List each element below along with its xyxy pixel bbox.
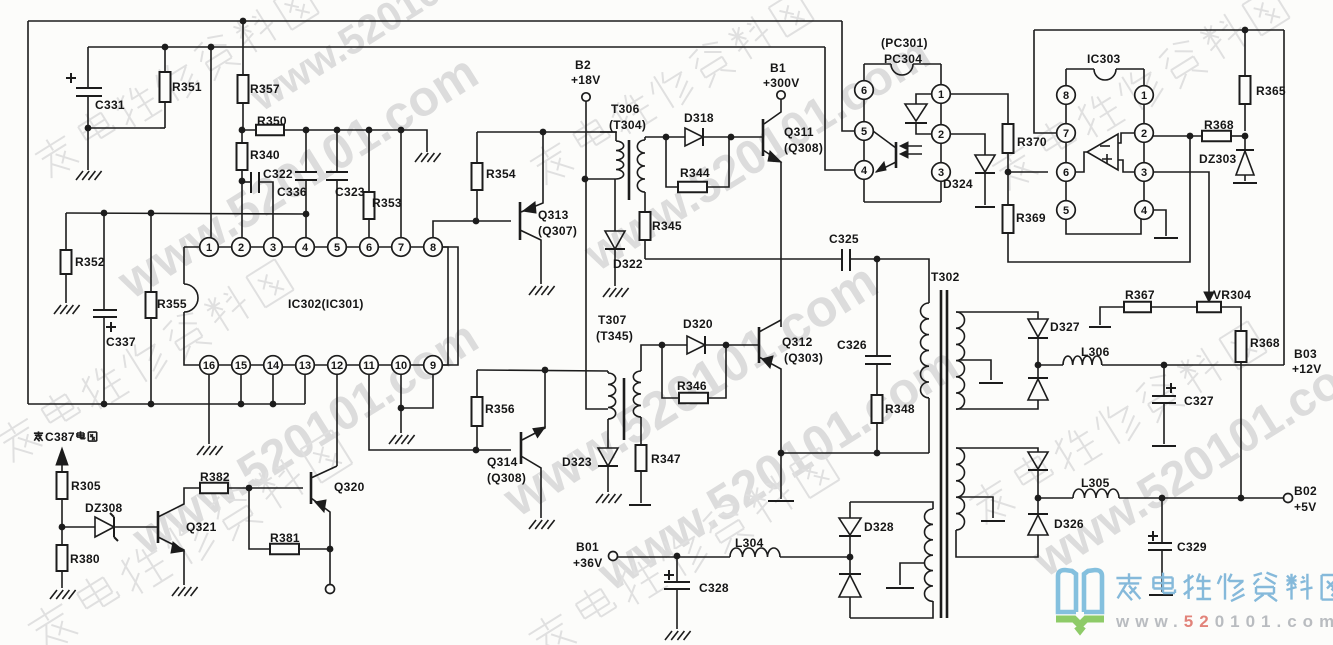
IC302 pin 2	[232, 238, 251, 257]
label to C387 negative plate	[34, 431, 43, 441]
svg-text:B01: B01	[576, 540, 599, 554]
node junction C327	[1161, 362, 1168, 369]
node junction R357 / R350 wire	[239, 127, 246, 134]
IC303 pin 5	[1057, 201, 1076, 220]
svg-text:5: 5	[1063, 205, 1069, 217]
wire pin14 column	[272, 374, 274, 404]
node junction pin4 column / left wire	[303, 211, 310, 218]
wire pin8 to pin9 column	[442, 247, 458, 365]
svg-text:C323: C323	[335, 185, 365, 199]
watermark	[243, 0, 547, 120]
terminal below Q320	[326, 585, 335, 594]
wire pin16 column to ground	[208, 374, 210, 444]
transistor Q311	[762, 119, 765, 156]
transformer T302 upper secondary winding	[956, 312, 965, 409]
svg-text:R370: R370	[1017, 135, 1047, 149]
node junction rail / R355	[148, 210, 155, 217]
resistor R370	[1003, 124, 1014, 153]
inductor L306	[1038, 364, 1063, 366]
svg-text:(Q308): (Q308)	[784, 141, 823, 155]
svg-text:D326: D326	[1054, 517, 1084, 531]
logo text jiadian weixiu ziliao wang	[1116, 573, 1141, 600]
diode D327 pair lower	[1028, 377, 1048, 379]
wire R351 bottom to C331 column	[88, 127, 160, 129]
wire Q312 emitter to ground bar	[780, 453, 782, 499]
svg-text:R345: R345	[652, 219, 682, 233]
node junction rail / pin6 column	[366, 127, 373, 134]
capacitor C326	[876, 259, 878, 356]
ground below Q313	[529, 286, 555, 295]
IC IC303 outline	[1065, 69, 1067, 86]
diode D326 upper	[1028, 452, 1048, 469]
svg-text:C328: C328	[699, 581, 729, 595]
svg-text:Q321: Q321	[186, 520, 217, 534]
svg-text:R350: R350	[257, 114, 287, 128]
node junction D326 / L305	[1035, 495, 1042, 502]
watermark	[1023, 333, 1333, 588]
svg-text:R348: R348	[885, 402, 915, 416]
capacitor C329	[1161, 498, 1163, 543]
resistor R365	[1244, 30, 1246, 76]
svg-text:(PC301): (PC301)	[881, 36, 928, 50]
svg-text:C325: C325	[829, 232, 859, 246]
svg-text:R368: R368	[1204, 118, 1234, 132]
svg-text:T307: T307	[598, 313, 627, 327]
wire B01 rail	[618, 556, 730, 558]
IC302 pin 12	[328, 356, 347, 375]
svg-text:C336: C336	[277, 185, 307, 199]
resistor R356	[476, 370, 478, 397]
node junction rail / pin14	[270, 401, 277, 408]
svg-text:R356: R356	[485, 402, 515, 416]
svg-text:C322: C322	[263, 167, 293, 181]
wire C322 to IC302 pin3	[259, 182, 273, 238]
node junction Q313 emitter rail	[540, 129, 547, 136]
node junction B2 / T306 bottom	[582, 176, 589, 183]
wire rail A drop to PC304 pin5	[842, 21, 855, 131]
svg-text:6: 6	[1063, 167, 1069, 179]
ground below R380	[50, 590, 76, 599]
node junction rail / R355 bottom	[148, 401, 155, 408]
wire emitter rail to T302	[781, 452, 929, 454]
ground bar below D324	[975, 206, 995, 208]
diode D322	[614, 179, 616, 231]
capacitor C323	[336, 130, 338, 172]
svg-text:R368: R368	[1250, 336, 1280, 350]
svg-text:Q312: Q312	[782, 335, 813, 349]
svg-text:B03: B03	[1294, 347, 1317, 361]
watermark	[0, 256, 295, 467]
svg-text:IC303: IC303	[1087, 52, 1121, 66]
transformer T302 lower secondary winding	[956, 448, 965, 530]
capacitor C322	[242, 181, 251, 183]
wire B2 column	[585, 101, 587, 371]
wire pin13 column	[304, 374, 306, 404]
svg-text:L304: L304	[735, 536, 764, 550]
svg-text:+5V: +5V	[1294, 500, 1317, 514]
svg-text:7: 7	[398, 242, 404, 254]
svg-text:(Q307): (Q307)	[538, 224, 577, 238]
capacitor C327	[1163, 365, 1165, 396]
transistor Q321	[157, 511, 160, 543]
watermark	[965, 318, 1268, 529]
svg-text:D323: D323	[562, 455, 592, 469]
zener diode DZ303	[1244, 136, 1246, 150]
logo book icon	[1058, 570, 1102, 612]
svg-text:L305: L305	[1081, 476, 1110, 490]
svg-text:R367: R367	[1125, 288, 1155, 302]
svg-text:2: 2	[238, 242, 244, 254]
wire to Q312 base	[726, 344, 759, 346]
optocoupler PC304 phototransistor	[895, 142, 898, 168]
svg-text:+36V: +36V	[573, 556, 603, 570]
svg-text:C329: C329	[1177, 540, 1207, 554]
resistor R354	[476, 132, 478, 163]
resistor R353	[368, 130, 370, 192]
node junction R365 / R368 / DZ303	[1242, 133, 1249, 140]
resistor R357	[242, 21, 244, 75]
resistor R344	[666, 137, 678, 187]
svg-text:8: 8	[430, 242, 436, 254]
wire B2 top rail	[477, 131, 617, 133]
svg-text:R357: R357	[250, 82, 280, 96]
svg-text:DZ308: DZ308	[85, 501, 123, 515]
capacitor C336	[305, 130, 307, 172]
svg-text:4: 4	[1141, 205, 1148, 217]
wire pin10 to ground	[400, 408, 402, 433]
svg-text:11: 11	[363, 360, 375, 372]
ground tap T302 lower secondary	[959, 497, 993, 518]
svg-text:R346: R346	[677, 379, 707, 393]
wire pin3 to op-amp non-inverting input	[1118, 160, 1135, 172]
IC302 pin 15	[232, 356, 251, 375]
svg-text:+18V: +18V	[571, 73, 601, 87]
arrow to C387	[61, 464, 63, 472]
node junction R356 / Q314 base	[473, 447, 480, 454]
wire pin9 link	[401, 374, 433, 408]
node junction L304 / D328	[847, 554, 854, 561]
zener diode DZ308	[62, 526, 95, 528]
wire IC303 pin2 rail	[1153, 135, 1202, 137]
resistor R382	[200, 483, 228, 494]
svg-text:(Q308): (Q308)	[487, 471, 526, 485]
transformer T306 left winding	[600, 131, 616, 133]
resistor R340	[241, 130, 243, 143]
svg-text:6: 6	[861, 85, 867, 97]
ground below IC302 pin16	[197, 446, 223, 455]
svg-text:R353: R353	[372, 196, 402, 210]
svg-text:D327: D327	[1050, 320, 1080, 334]
svg-text:D318: D318	[684, 111, 714, 125]
svg-text:3: 3	[1141, 167, 1147, 179]
wire pin10 column	[400, 374, 402, 408]
svg-text:R305: R305	[71, 479, 101, 493]
wire B02 rail	[1119, 497, 1283, 499]
wire C337 R355 rail to pin4	[66, 213, 306, 214]
resistor R368 vertical	[1236, 331, 1247, 362]
diode D328 upper	[849, 502, 851, 518]
resistor R367	[1124, 302, 1151, 313]
resistor R381	[249, 488, 270, 549]
svg-text:R369: R369	[1016, 211, 1046, 225]
optocoupler PC304 pin 6	[855, 81, 874, 100]
svg-text:C326: C326	[837, 338, 867, 352]
ground below D322	[603, 288, 629, 297]
svg-text:10: 10	[395, 360, 407, 372]
svg-text:Q320: Q320	[334, 480, 365, 494]
ground tap T302 upper secondary	[959, 360, 991, 380]
wire bottom ground rail	[28, 403, 305, 405]
svg-text:C337: C337	[106, 335, 136, 349]
svg-text:(T304): (T304)	[609, 118, 646, 132]
svg-text:R340: R340	[250, 148, 280, 162]
node junction rail A / R357	[240, 18, 247, 25]
ground below IC302 pin10	[389, 435, 415, 444]
resistor R355	[150, 213, 152, 292]
wire T306 left winding bottom link	[585, 178, 616, 180]
diode D327	[1028, 319, 1048, 337]
IC302 pin 6	[360, 238, 379, 257]
node junction R368 / B02 rail	[1238, 495, 1245, 502]
watermark	[493, 252, 888, 529]
wire B2 column to T307 bottom	[586, 371, 608, 409]
watermark	[107, 43, 487, 309]
node junction C331 / R351 bottom wire	[85, 125, 92, 132]
transistor Q312	[758, 327, 761, 363]
capacitor C328	[676, 556, 678, 582]
ground bar below DZ303	[1233, 182, 1257, 184]
svg-text:8: 8	[1063, 90, 1069, 102]
wire IC303 pin3 to VR304	[1153, 172, 1209, 293]
svg-text:R354: R354	[486, 167, 516, 181]
ground bar below Q312	[768, 500, 794, 502]
svg-text:R352: R352	[75, 255, 105, 269]
optocoupler light arrows	[904, 146, 922, 154]
svg-text:R381: R381	[270, 531, 300, 545]
svg-text:R365: R365	[1256, 84, 1286, 98]
ground below C328	[665, 631, 691, 640]
wire op-amp output to pin6	[1075, 152, 1087, 172]
node junction R365 top	[1242, 27, 1249, 34]
svg-text:9: 9	[430, 360, 436, 372]
svg-text:2: 2	[938, 129, 944, 141]
IC302 pin 1	[200, 238, 219, 257]
transformer T307 right winding	[633, 371, 641, 417]
svg-text:1: 1	[1141, 90, 1147, 102]
diode D323	[607, 419, 609, 448]
ground bar below C329	[1149, 594, 1173, 596]
svg-text:13: 13	[299, 360, 311, 372]
wire Q314 emitter rail to T307	[477, 370, 608, 371]
resistor R305	[57, 472, 68, 499]
svg-text:(Q303): (Q303)	[784, 351, 823, 365]
diode D328 lower	[839, 573, 861, 575]
svg-text:www.520101.com: www.520101.com	[1115, 612, 1333, 631]
watermark	[31, 0, 320, 182]
inductor L304	[730, 548, 780, 557]
node junction rail / pin5 column	[334, 127, 341, 134]
transformer T302 primary winding	[920, 303, 929, 398]
IC303 pin 1	[1135, 86, 1154, 105]
svg-text:D324: D324	[943, 177, 973, 191]
optocoupler PC304 LED	[916, 94, 932, 104]
ground bar below IC303 pin4	[1154, 237, 1178, 239]
svg-text:R344: R344	[680, 166, 710, 180]
ground right of R350 rail	[415, 153, 441, 162]
IC303 pin 2	[1135, 124, 1154, 143]
svg-text:R351: R351	[172, 80, 202, 94]
node junction C328	[674, 553, 681, 560]
ground bar below R347	[629, 504, 651, 506]
wire PC304 pin2 to D324	[950, 134, 985, 155]
diode D320	[662, 344, 687, 346]
wire R350 rail	[242, 130, 427, 152]
node junction Q312 base	[723, 342, 730, 349]
IC303 pin 4	[1135, 201, 1154, 220]
svg-text:C331: C331	[95, 98, 125, 112]
IC302 pin 9	[424, 356, 443, 375]
capacitor C337	[103, 213, 105, 310]
svg-text:B2: B2	[575, 58, 591, 72]
optocoupler PC304 pin 2	[932, 125, 951, 144]
svg-text:Q311: Q311	[784, 125, 814, 139]
watermark	[988, 0, 1291, 195]
svg-text:DZ303: DZ303	[1199, 152, 1237, 166]
wire IC302 pin7 column	[400, 130, 402, 238]
optocoupler PC304 pin 3	[932, 163, 951, 182]
node junction rail / C337 bottom	[101, 401, 108, 408]
transistor Q320	[310, 472, 313, 504]
optocoupler PC304 pin 1	[932, 85, 951, 104]
resistor R348	[876, 364, 878, 395]
ground bar below C327	[1152, 445, 1176, 447]
watermark	[524, 444, 840, 645]
watermark	[587, 335, 967, 601]
wire IC303 pin4 to ground	[1153, 210, 1166, 236]
transistor Q314	[520, 432, 523, 464]
svg-text:R380: R380	[70, 552, 100, 566]
svg-text:6: 6	[366, 242, 372, 254]
wire supply to pin7	[1034, 30, 1057, 133]
IC302 pin 13	[296, 356, 315, 375]
node junction Q311 base	[728, 134, 735, 141]
svg-text:R382: R382	[200, 470, 230, 484]
wire pin4 column lower	[305, 214, 307, 238]
ground below Q314	[529, 520, 555, 529]
IC IC302 outline	[184, 247, 448, 365]
wire D328 to T302 bottom winding	[850, 502, 933, 509]
svg-text:C327: C327	[1184, 394, 1214, 408]
terminal B02 +5V	[1284, 494, 1293, 503]
potentiometer VR304	[1197, 302, 1221, 313]
node junction D327 cathode / L306	[1035, 362, 1042, 369]
wire IC302 pin2 column	[241, 181, 243, 238]
IC302 pin 16	[200, 356, 219, 375]
wire R367 left to ground	[1100, 307, 1124, 325]
svg-text:4: 4	[861, 165, 868, 177]
optocoupler PC304 outline	[864, 63, 891, 65]
svg-text:C387: C387	[45, 430, 75, 444]
wire R345 to C325	[645, 258, 842, 260]
resistor R347	[640, 417, 642, 445]
node junction rail / C337	[101, 210, 108, 217]
svg-text:+12V: +12V	[1292, 362, 1322, 376]
node junction D320 anode	[659, 342, 666, 349]
node junction D318 anode	[663, 134, 670, 141]
wire pin2 to op-amp inverting input	[1118, 133, 1135, 143]
watermark	[23, 427, 353, 645]
svg-text:D320: D320	[683, 317, 713, 331]
node junction rail B / IC302 pin1 column	[208, 44, 215, 51]
svg-text:7: 7	[1063, 128, 1069, 140]
node junction R340 / C322 / IC302 pin2	[239, 178, 246, 185]
wire B03 rail	[1102, 364, 1284, 366]
resistor R351	[164, 47, 166, 72]
resistor R380	[61, 527, 63, 545]
svg-text:D322: D322	[613, 257, 643, 271]
resistor R350	[256, 125, 284, 136]
transformer T307 core	[623, 378, 626, 440]
svg-text:14: 14	[267, 360, 280, 372]
IC302 pin 11	[360, 356, 379, 375]
resistor R369	[1007, 172, 1009, 205]
IC302 pin 4	[296, 238, 315, 257]
wire IC303 supply top	[1034, 29, 1284, 31]
IC302 pin 3	[264, 238, 283, 257]
svg-text:IC302(IC301): IC302(IC301)	[288, 297, 364, 311]
IC303 pins 5-4 link	[1066, 219, 1141, 234]
node junction R370 / R369 / IC303 pin6	[1005, 169, 1012, 176]
IC303 pin 6	[1057, 163, 1076, 182]
wire top rail A	[28, 20, 842, 22]
node junction C329	[1159, 495, 1166, 502]
node junction feedback / IC303 pin2 wire	[1187, 133, 1194, 140]
resistor R346	[662, 345, 679, 398]
svg-text:T302: T302	[931, 270, 960, 284]
node junction Q312 emitter rail	[778, 450, 785, 457]
wire IC302 pin1 column	[210, 47, 212, 238]
svg-text:5: 5	[334, 242, 340, 254]
svg-text:12: 12	[331, 360, 343, 372]
wire to IC303 pin6	[1008, 171, 1048, 173]
svg-text:B02: B02	[1294, 484, 1317, 498]
IC303 pin 7	[1057, 124, 1076, 143]
wire secondary top to D327	[956, 312, 1038, 319]
transformer T302 core	[940, 290, 943, 618]
svg-text:B1: B1	[770, 61, 786, 75]
svg-text:4: 4	[302, 242, 309, 254]
svg-text:2: 2	[1141, 128, 1147, 140]
svg-text:+300V: +300V	[763, 76, 800, 90]
node junction R350 right / pin4 column	[303, 127, 310, 134]
optocoupler PC304 pin 5	[855, 122, 874, 141]
node junction rail B / R351	[162, 44, 169, 51]
wire to Q311 base	[731, 136, 763, 138]
watermark	[526, 0, 815, 189]
svg-text:R355: R355	[157, 297, 187, 311]
wire R367 to VR304	[1151, 306, 1197, 308]
wire T307 to D320	[641, 345, 662, 371]
node junction Q314 emitter / R356	[542, 367, 549, 374]
svg-text:16: 16	[203, 360, 215, 372]
ground below C331	[76, 171, 102, 180]
resistor R345	[644, 192, 646, 212]
diode D324	[975, 155, 995, 172]
IC302 pin 7	[392, 238, 411, 257]
svg-text:L306: L306	[1081, 345, 1110, 359]
IC303 pin 3	[1135, 163, 1154, 182]
ground tap T302 bottom winding	[900, 563, 925, 585]
